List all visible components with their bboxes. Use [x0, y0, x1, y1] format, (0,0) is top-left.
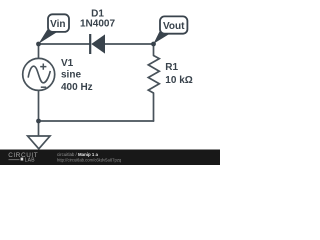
- svg-text:circuitlab / Manip 1 a: circuitlab / Manip 1 a: [57, 152, 99, 157]
- svg-text:400 Hz: 400 Hz: [61, 82, 93, 93]
- svg-text:Vin: Vin: [50, 19, 65, 30]
- svg-text:R1: R1: [165, 62, 178, 73]
- svg-text:10 kΩ: 10 kΩ: [165, 75, 192, 86]
- svg-text:Vout: Vout: [163, 21, 185, 32]
- svg-text:V1: V1: [61, 58, 74, 69]
- svg-text:sine: sine: [61, 70, 81, 81]
- svg-text:1N4007: 1N4007: [80, 19, 115, 30]
- svg-text:LAB: LAB: [25, 157, 36, 163]
- svg-text:http://circuitlab.com/c6kdv5a8: http://circuitlab.com/c6kdv5a87pzq: [57, 158, 122, 163]
